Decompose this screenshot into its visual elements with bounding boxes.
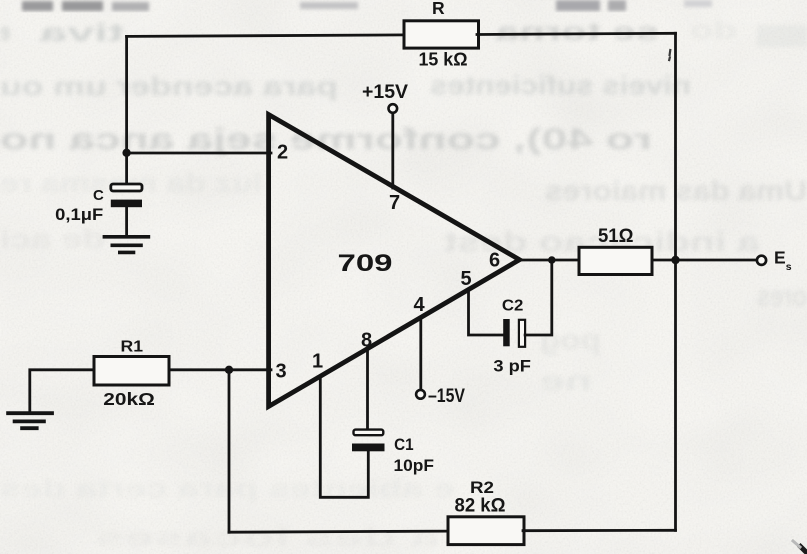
svg-text:tiva: tiva (38, 19, 124, 47)
svg-text:1: 1 (312, 351, 323, 373)
op-amp U1 triangle 709 (269, 115, 520, 407)
svg-text:C: C (93, 187, 104, 204)
svg-text:e abientes para certa des: e abientes para certa des (0, 473, 455, 503)
Es terminal circle (757, 256, 766, 265)
node B junction dot (225, 366, 233, 374)
svg-text:do: do (690, 17, 737, 45)
output node junction dot (548, 256, 556, 264)
+15V terminal circle (389, 104, 398, 113)
wire: R1 to pin 3 (169, 368, 271, 371)
ground branch wire for R1 (30, 370, 94, 412)
svg-text:0,1μF: 0,1μF (55, 205, 103, 224)
ground symbol left of R1 (8, 413, 52, 428)
svg-text:C1: C1 (394, 435, 414, 454)
svg-text:10pF: 10pF (394, 456, 435, 475)
svg-text:5: 5 (461, 268, 472, 290)
small tick artifact near top right rail (669, 50, 670, 60)
svg-text:niveis suficientes: niveis suficientes (430, 70, 691, 100)
resistor R (404, 21, 479, 48)
svg-text:4: 4 (414, 294, 426, 316)
capacitor C2 right plate (hollow) (519, 320, 525, 347)
capacitor C1 top plate (hollow) (354, 430, 384, 436)
wire: bottom rail left segment to R2 (229, 531, 449, 532)
wire: 51ohm to Es terminal (652, 259, 757, 262)
svg-text:de aci: de aci (0, 224, 105, 254)
svg-text:2: 2 (277, 142, 288, 164)
wire: capacitor C to ground (125, 207, 128, 236)
svg-text:R: R (432, 0, 445, 18)
wire: pin 8 down to C1 (366, 352, 369, 430)
svg-text:R2: R2 (470, 478, 494, 497)
scan corner mark bottom right (793, 541, 807, 554)
wire: node A to op-amp pin 2 (127, 152, 271, 155)
svg-text:ne: ne (540, 365, 592, 396)
svg-text:7: 7 (389, 192, 400, 214)
svg-text:20kΩ: 20kΩ (103, 389, 155, 409)
svg-text:para acender um ou: para acender um ou (0, 71, 338, 101)
resistor 51ohm (579, 247, 652, 274)
svg-text:–15V: –15V (428, 386, 465, 407)
svg-text:6: 6 (489, 250, 500, 272)
node A junction dot (122, 149, 130, 157)
wire: C1 bottom loop to pin 1 (320, 377, 368, 498)
svg-text:pog: pog (540, 324, 601, 355)
wire: pin 5 down and right to C2 (469, 291, 504, 336)
capacitor C top plate (hollow) (111, 184, 142, 191)
wire: bottom rail right segment (523, 529, 676, 532)
resistor R1 (94, 357, 169, 386)
svg-text:E: E (774, 248, 786, 268)
wire: node A down to capacitor C (125, 153, 128, 186)
wire: node A up to top feedback rail (125, 36, 128, 152)
ground under C (104, 237, 148, 253)
capacitor C1 bottom plate (filled) (352, 444, 385, 452)
-15V supply wire (pin 4) (419, 318, 422, 390)
wire: top rail left segment to R (127, 35, 406, 37)
resistor R2 (448, 517, 524, 545)
wire: node B down to bottom rail (228, 370, 231, 532)
svg-text:82 kΩ: 82 kΩ (455, 496, 506, 517)
svg-text:8: 8 (361, 330, 372, 352)
right rail junction dot (671, 256, 679, 264)
svg-text:3 pF: 3 pF (493, 357, 531, 376)
svg-text:se torna: se torna (494, 18, 659, 46)
wire: op-amp output to 51ohm resistor (520, 259, 581, 262)
svg-text:C2: C2 (502, 298, 524, 315)
svg-text:709: 709 (338, 250, 393, 277)
svg-text:ro 40), conforme seja anca no: ro 40), conforme seja anca no (0, 123, 652, 156)
svg-text:51Ω: 51Ω (598, 225, 634, 247)
svg-text:ores: ores (757, 280, 807, 313)
svg-text:a des locases: a des locases (95, 522, 440, 552)
+15V supply wire (pin 7) (391, 113, 394, 188)
wire: C2 up to output node (525, 261, 552, 335)
svg-text:s: s (786, 261, 792, 273)
svg-text:15 kΩ: 15 kΩ (419, 49, 468, 70)
capacitor C bottom plate (filled) (111, 200, 142, 208)
capacitor C2 left plate (filled) (503, 319, 510, 346)
-15V terminal circle (416, 390, 425, 399)
wire: top rail right segment from R to right rail (477, 33, 676, 34)
wire: right vertical rail (674, 33, 677, 530)
svg-text:e: e (0, 19, 10, 47)
svg-text:+15V: +15V (362, 82, 408, 103)
svg-text:3: 3 (276, 361, 287, 383)
svg-text:R1: R1 (121, 339, 144, 356)
